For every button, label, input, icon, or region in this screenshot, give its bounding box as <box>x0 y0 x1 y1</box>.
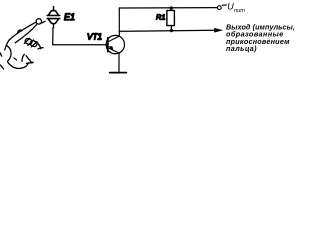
output caption text <box>226 23 295 53</box>
curled finger loop 1 <box>25 39 32 45</box>
svg-text:VT1: VT1 <box>87 32 102 41</box>
emitter wire down <box>118 53 120 72</box>
junction dot bottom <box>170 29 173 32</box>
wire sensor to base <box>53 28 108 45</box>
curled finger loop 2 <box>30 41 37 47</box>
index finger bottom line <box>15 25 37 43</box>
svg-text:пит: пит <box>234 8 245 14</box>
ground bar <box>110 72 127 74</box>
hand with pointing finger <box>0 19 45 69</box>
thumb knuckle bump <box>18 30 22 32</box>
fist bottom outline <box>8 62 29 68</box>
touch tick <box>42 21 45 23</box>
palm crease wavy <box>22 54 24 61</box>
sensor plate E1 <box>47 7 60 28</box>
thumb outer edge <box>5 40 10 50</box>
top supply rail <box>119 7 217 9</box>
fingernail loop <box>36 19 41 24</box>
junction dot top <box>170 6 173 9</box>
output line with arrow <box>119 30 216 31</box>
svg-text:пальца): пальца) <box>226 44 257 53</box>
transistor VT1 <box>106 35 124 53</box>
wrist lines <box>0 53 4 69</box>
knuckle hatches <box>24 38 37 47</box>
resistor R1 <box>167 8 175 31</box>
terminal circle <box>217 6 221 10</box>
label -Upit <box>222 2 245 14</box>
cuff fold mark <box>26 56 33 64</box>
collector wire up <box>118 8 120 36</box>
index finger top line <box>9 22 36 40</box>
motion fork <box>37 43 43 49</box>
svg-text:R1: R1 <box>156 13 165 22</box>
small crease tick <box>14 58 17 60</box>
thumb crease <box>7 46 11 62</box>
svg-text:E1: E1 <box>64 12 75 22</box>
